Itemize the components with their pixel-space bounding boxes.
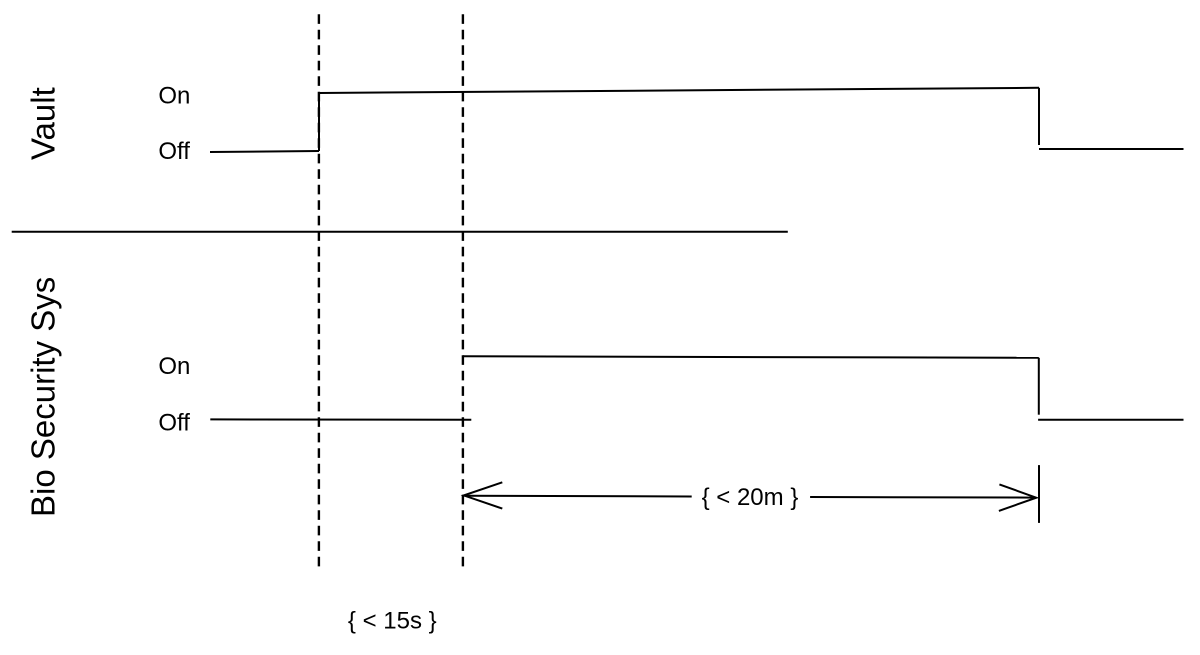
wire: Vault off segment left xyxy=(210,151,319,152)
wire: Bio off segment right xyxy=(1038,419,1183,421)
measurement arrow left head xyxy=(464,482,503,508)
measurement arrow shaft right xyxy=(810,496,1035,499)
wire: Bio falling edge xyxy=(1038,358,1040,415)
wire: Vault rising edge xyxy=(318,93,320,151)
wire: Vault falling edge xyxy=(1038,88,1040,145)
svg-text:{ < 20m }: { < 20m } xyxy=(702,484,799,511)
dashed guide line 2 xyxy=(462,14,464,567)
svg-text:On: On xyxy=(158,83,190,110)
lane separator line xyxy=(12,231,788,233)
dashed guide line 1 xyxy=(318,14,320,567)
svg-text:Off: Off xyxy=(158,138,190,165)
measurement boundary tick xyxy=(1038,465,1040,523)
wire: Bio off segment left xyxy=(210,418,471,420)
wire: Vault off segment right xyxy=(1039,148,1184,150)
measurement arrow right head xyxy=(999,484,1036,511)
svg-text:{ < 15s }: { < 15s } xyxy=(348,608,437,635)
wire: Bio on segment xyxy=(463,356,1039,358)
svg-text:On: On xyxy=(158,353,190,380)
svg-text:Bio Security Sys: Bio Security Sys xyxy=(24,277,61,517)
wire: Vault on segment xyxy=(319,88,1039,93)
svg-text:Vault: Vault xyxy=(25,87,62,160)
measurement arrow shaft left xyxy=(465,495,692,498)
svg-text:Off: Off xyxy=(158,409,190,436)
